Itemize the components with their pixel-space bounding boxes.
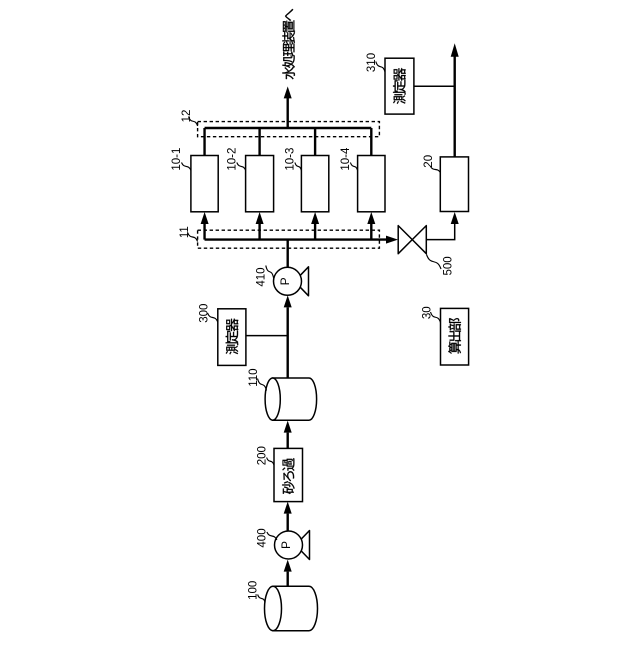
svg-text:300: 300 <box>198 304 210 323</box>
svg-text:10-3: 10-3 <box>284 148 296 171</box>
svg-text:500: 500 <box>442 256 454 275</box>
svg-text:200: 200 <box>256 446 268 465</box>
svg-text:30: 30 <box>421 306 433 319</box>
svg-text:10-4: 10-4 <box>340 147 352 171</box>
svg-text:20: 20 <box>423 155 435 168</box>
svg-text:11: 11 <box>179 226 191 238</box>
svg-text:410: 410 <box>256 267 268 286</box>
svg-text:10-2: 10-2 <box>226 148 238 171</box>
svg-text:P: P <box>278 277 292 285</box>
svg-text:100: 100 <box>247 581 259 600</box>
svg-text:400: 400 <box>257 528 269 547</box>
svg-text:10-1: 10-1 <box>171 148 183 171</box>
svg-text:110: 110 <box>248 368 260 386</box>
svg-text:P: P <box>279 541 293 549</box>
